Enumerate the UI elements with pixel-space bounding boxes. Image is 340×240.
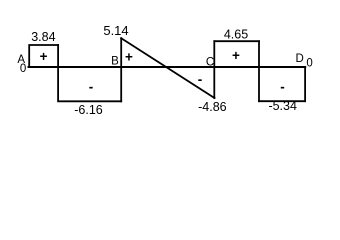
svg-text:C: C [206,56,214,68]
svg-text:0: 0 [20,63,26,75]
svg-text:+: + [125,50,133,65]
svg-text:+: + [232,48,240,63]
svg-text:3.84: 3.84 [31,30,55,44]
svg-text:4.65: 4.65 [224,28,248,42]
svg-text:-4.86: -4.86 [198,100,227,114]
svg-text:+: + [40,49,48,64]
svg-text:-: - [280,79,285,94]
svg-text:-: - [89,80,94,95]
svg-text:5.14: 5.14 [103,23,128,38]
svg-text:D: D [296,53,304,65]
svg-text:B: B [111,56,119,68]
svg-text:-5.34: -5.34 [268,99,297,113]
svg-text:-: - [198,72,203,87]
svg-text:0: 0 [306,57,312,69]
svg-text:-6.16: -6.16 [74,103,103,117]
